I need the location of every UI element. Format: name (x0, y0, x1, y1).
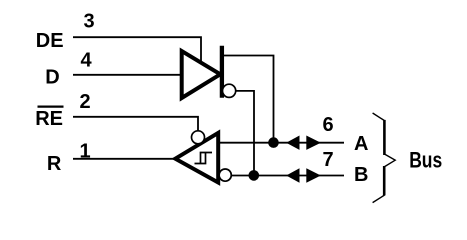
svg-text:7: 7 (322, 149, 333, 171)
svg-text:DE: DE (36, 30, 64, 52)
enable bubble on receiver (RE) (192, 131, 205, 144)
bidirectional arrow on A (286, 136, 321, 150)
svg-text:2: 2 (79, 91, 90, 113)
svg-text:6: 6 (322, 114, 333, 136)
junction dot on net A (268, 137, 279, 148)
wire D (pin 4 to driver input) (73, 74, 181, 76)
svg-text:R: R (47, 153, 62, 175)
driver D1 (buffer triangle) (182, 51, 221, 98)
bidirectional arrow on B (286, 168, 321, 182)
svg-text:D: D (45, 66, 59, 88)
receiver R1 (triangle with hysteresis) (175, 133, 218, 183)
wire driver noninverting output to A net (224, 56, 274, 143)
svg-text:4: 4 (80, 50, 92, 72)
inversion bubble on receiver B input (219, 169, 231, 181)
junction dot on net B (249, 170, 260, 181)
bus brace (373, 113, 396, 203)
svg-text:B: B (354, 164, 368, 186)
wire driver inverting output to B net (236, 91, 254, 176)
svg-text:A: A (354, 133, 368, 155)
wire RE (pin 2 to receiver enable bubble) (73, 117, 198, 132)
wire net A (bus line A) (219, 142, 345, 144)
hysteresis symbol (195, 153, 213, 164)
wire net B (bus line B) (231, 175, 344, 177)
driver output bar (220, 46, 224, 98)
inversion bubble on driver B output (223, 84, 236, 97)
wire R (pin 1 to receiver output) (73, 158, 176, 160)
svg-text:3: 3 (83, 11, 94, 33)
wire DE (pin 3 to driver enable) (73, 37, 201, 61)
svg-text:RE: RE (35, 108, 63, 130)
svg-text:Bus: Bus (409, 148, 442, 173)
label RE (active low) (35, 107, 63, 130)
